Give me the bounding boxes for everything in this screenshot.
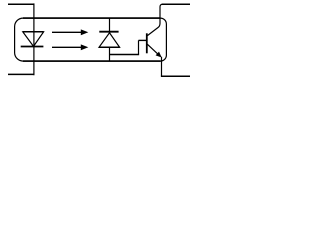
LED D1 triangle top edge emphasis [23,31,44,33]
wire anode tap to base [110,54,140,56]
wire riser [138,40,140,54]
package bottom edge emphasis [23,60,161,62]
emitter arrowhead [156,52,162,58]
light arrow 1 head [81,29,89,35]
transistor Q1 emitter slant [147,44,158,54]
transistor Q1 base bar [146,33,148,53]
photodiode D2 triangle [99,33,120,48]
wire collector pin 3 [162,3,191,5]
wire cathode pin 2 [8,73,35,75]
LED D1 triangle [23,32,44,47]
transistor Q1 collector [147,4,162,35]
LED wire vertical [33,3,35,75]
wire emitter pin 4 [161,75,190,77]
light arrow 2 head [81,44,89,50]
light arrow 1 shaft [52,31,81,33]
photodiode D2 cathode wire [109,18,111,33]
emitter wire vertical [161,57,163,77]
LED D1 cathode bar [21,46,44,48]
package outline U1 [15,18,167,61]
light arrow 2 shaft [52,46,81,48]
wire riser top to base bar [139,39,147,41]
photodiode D2 cathode bar [99,31,118,33]
photodiode anode wire down [109,47,111,61]
optocoupler schematic [0,0,199,80]
package top edge emphasis [23,17,161,19]
photodiode D2 base edge emphasis [99,46,120,48]
wire anode pin 1 [8,3,35,5]
